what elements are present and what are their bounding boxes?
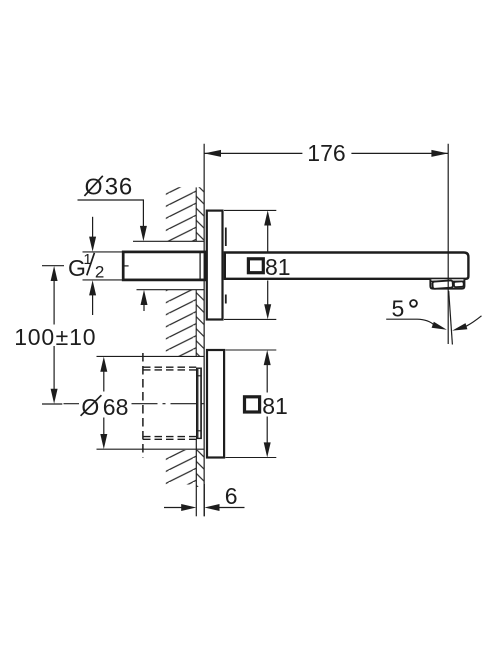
176 left arrowhead [204, 150, 221, 157]
Ø36 upper extension line [133, 240, 204, 242]
spout base sliver [225, 228, 227, 247]
svg-text:176: 176 [307, 140, 345, 166]
G1/2 lower arrow [92, 295, 94, 315]
svg-text:±10: ±10 [56, 324, 97, 350]
6 left arrow [164, 507, 182, 509]
wall hatching bottom segment [166, 450, 196, 485]
100 ±10 dimension [42, 265, 64, 267]
G1/2 upper arrow [92, 217, 94, 238]
sleeve inner right line [200, 369, 202, 438]
176 right arrowhead [431, 150, 448, 157]
wall finish layer boundary line upper [195, 187, 197, 241]
81 lower dimension line + arrows [266, 365, 268, 393]
5 deg arc right with arrow [466, 316, 481, 326]
6 right arrow [219, 507, 245, 509]
svg-text:81: 81 [265, 254, 291, 280]
concealed body dashed outline [142, 353, 144, 458]
81 upper extension lines [224, 209, 276, 211]
81 lower square symbol [245, 397, 260, 412]
svg-text:2: 2 [95, 263, 104, 282]
svg-text:5: 5 [392, 296, 405, 322]
pipe end line at rough wall [199, 252, 201, 280]
aerator mousseur A [432, 280, 453, 289]
lower centerline [64, 403, 80, 405]
176 right extension line through spout [447, 144, 449, 344]
svg-text:100: 100 [14, 324, 55, 350]
Ø36 leader underline and arrow [78, 200, 144, 227]
wall face line (full height, also 176/6 extension) [203, 144, 205, 517]
sleeve at wall face [197, 368, 202, 438]
pipe centerline tick [122, 265, 129, 267]
G1/2 thin extension lines left of pipe [83, 251, 124, 253]
svg-text:68: 68 [103, 394, 129, 420]
81 upper dimension line + arrows [267, 225, 269, 252]
water stream 5 deg line [449, 291, 453, 345]
aerator mousseur B [454, 281, 464, 287]
wall hatching middle segment [166, 290, 196, 357]
sleeve top cap divider [197, 375, 202, 377]
Ø36 lower arrow [143, 296, 145, 311]
81 lower extension lines [225, 349, 276, 351]
dimension 176 line [204, 152, 302, 154]
svg-text:36: 36 [105, 173, 133, 200]
sleeve inner left line [197, 369, 199, 438]
svg-text:6: 6 [225, 483, 238, 509]
lower wall plate [207, 350, 224, 458]
Ø68 extension lines [97, 355, 204, 357]
wall hatching upper segment [166, 187, 196, 241]
aerator housing [430, 279, 464, 288]
svg-text:81: 81 [262, 393, 288, 419]
G 1/2 supply pipe [123, 252, 205, 280]
81 upper square symbol [248, 259, 263, 273]
sleeve bottom cap divider [197, 430, 202, 432]
wall finish layer boundary line middle [195, 290, 197, 357]
Ø68 dimension line + arrows [103, 371, 105, 392]
6 dimension extension lines [195, 439, 197, 516]
Ø36 lower extension line [137, 289, 204, 291]
upper wall plate [207, 211, 223, 320]
spout [225, 253, 469, 279]
aerator inner line [431, 280, 464, 282]
5 deg leader left with arrow [386, 319, 434, 325]
